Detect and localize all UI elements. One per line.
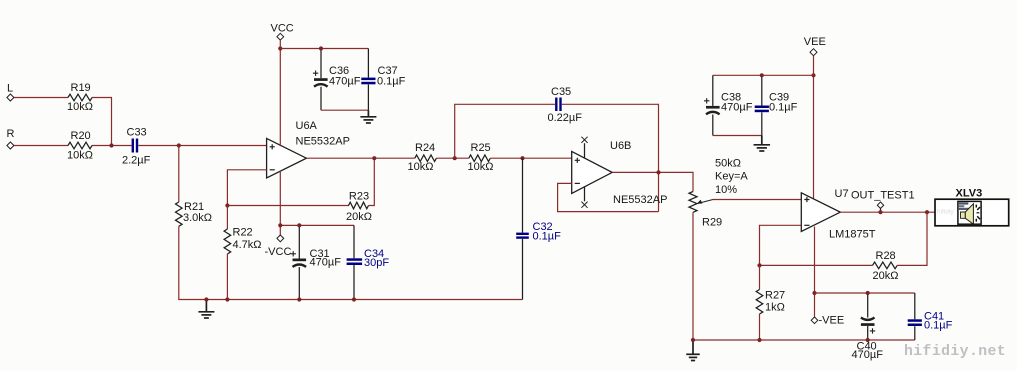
svg-text:10%: 10% bbox=[715, 184, 737, 196]
svg-text:NE5532AP: NE5532AP bbox=[296, 136, 350, 148]
svg-text:R27: R27 bbox=[765, 290, 785, 302]
wire bbox=[14, 97, 68, 99]
wire bbox=[813, 56, 815, 200]
wire bbox=[914, 326, 916, 340]
svg-text:U7: U7 bbox=[835, 188, 849, 200]
node junction bbox=[757, 263, 761, 267]
svg-text:0.1µF: 0.1µF bbox=[533, 231, 562, 243]
node junction bbox=[297, 223, 301, 227]
ground bbox=[686, 340, 700, 361]
svg-text:R28: R28 bbox=[876, 250, 896, 262]
svg-text:470µF: 470µF bbox=[310, 257, 342, 269]
svg-text:R25: R25 bbox=[471, 142, 491, 154]
resistor R21 bbox=[176, 201, 213, 226]
wire bbox=[712, 115, 714, 136]
svg-text:2.2µF: 2.2µF bbox=[122, 155, 151, 167]
svg-text:LM1875T: LM1875T bbox=[829, 229, 876, 241]
wire bbox=[490, 157, 571, 159]
wire bbox=[14, 145, 68, 147]
wire bbox=[455, 104, 555, 158]
wire bbox=[612, 172, 693, 191]
node junction bbox=[925, 210, 929, 214]
svg-text:1kΩ: 1kΩ bbox=[765, 302, 785, 314]
node junction bbox=[225, 203, 229, 207]
wire bbox=[558, 183, 659, 211]
svg-text:10kΩ: 10kΩ bbox=[408, 161, 434, 173]
wire bbox=[369, 158, 375, 205]
svg-text:hifidiy.net: hifidiy.net bbox=[904, 344, 1006, 360]
svg-text:470µF: 470µF bbox=[329, 76, 361, 88]
wire bbox=[761, 75, 763, 105]
svg-text:470µF: 470µF bbox=[721, 102, 753, 114]
wire bbox=[138, 145, 266, 147]
svg-text:C35: C35 bbox=[551, 86, 571, 98]
wire bbox=[280, 48, 368, 50]
wire bbox=[178, 146, 180, 203]
node junction bbox=[757, 338, 761, 342]
wire bbox=[761, 112, 763, 135]
potentiometer R29 bbox=[689, 157, 748, 228]
svg-text:10kΩ: 10kΩ bbox=[468, 161, 494, 173]
wire bbox=[367, 49, 369, 78]
svg-text:VEE: VEE bbox=[804, 36, 826, 48]
wire bbox=[179, 226, 523, 299]
wire bbox=[298, 225, 300, 258]
node junction bbox=[760, 73, 764, 77]
svg-text:50kΩ: 50kΩ bbox=[715, 157, 741, 169]
pin V+ (NC) bbox=[581, 137, 587, 158]
svg-text:R29: R29 bbox=[702, 217, 722, 229]
wire bbox=[353, 265, 355, 300]
wire bbox=[840, 211, 935, 213]
wire bbox=[321, 109, 368, 111]
resistor R27 bbox=[756, 290, 785, 315]
svg-text:R: R bbox=[7, 128, 15, 140]
svg-text:30pF: 30pF bbox=[364, 257, 389, 269]
wire bbox=[759, 314, 761, 340]
svg-text:470µF: 470µF bbox=[852, 349, 884, 361]
resistor R28 bbox=[873, 250, 899, 282]
wire bbox=[760, 225, 873, 265]
connector R bbox=[7, 128, 15, 149]
capacitor C38 bbox=[704, 92, 753, 115]
capacitor C40 bbox=[852, 318, 884, 362]
wire bbox=[298, 267, 300, 299]
node junction bbox=[866, 291, 870, 295]
wire bbox=[815, 292, 915, 294]
wire bbox=[693, 212, 915, 340]
resistor R22 bbox=[226, 206, 228, 230]
wire bbox=[279, 40, 281, 146]
wire bbox=[897, 212, 927, 265]
svg-text:U6A: U6A bbox=[296, 120, 318, 132]
connector L bbox=[7, 83, 14, 102]
wire bbox=[759, 265, 761, 289]
svg-text:0.1µF: 0.1µF bbox=[924, 320, 953, 332]
svg-text:0.1µF: 0.1µF bbox=[769, 102, 798, 114]
wire bbox=[320, 87, 322, 110]
wire bbox=[280, 224, 354, 226]
wire bbox=[92, 98, 112, 146]
capacitor C34 bbox=[347, 248, 390, 269]
svg-text:R22: R22 bbox=[233, 227, 253, 239]
node junction bbox=[372, 156, 376, 160]
node junction bbox=[297, 297, 301, 301]
svg-text:NE5532AP: NE5532AP bbox=[613, 194, 667, 206]
wire bbox=[867, 326, 869, 340]
speaker XLV3 bbox=[935, 187, 1009, 225]
node junction bbox=[866, 338, 870, 342]
node junction bbox=[453, 156, 457, 160]
op-amp U6B bbox=[572, 140, 668, 206]
node junction bbox=[278, 46, 282, 50]
node junction bbox=[352, 297, 356, 301]
node junction bbox=[812, 291, 816, 295]
wire bbox=[713, 74, 814, 76]
pin V- (NC) bbox=[581, 186, 587, 207]
wire bbox=[814, 227, 816, 318]
capacitor C41 bbox=[908, 311, 953, 332]
svg-text:C33: C33 bbox=[127, 126, 147, 138]
wire bbox=[712, 75, 714, 106]
power -VEE bbox=[811, 314, 844, 326]
svg-text:U6B: U6B bbox=[610, 140, 631, 152]
capacitor C31 bbox=[291, 248, 342, 269]
wire bbox=[353, 225, 355, 258]
power VCC bbox=[271, 22, 294, 40]
svg-text:Key=A: Key=A bbox=[715, 171, 748, 183]
svg-text:4.7kΩ: 4.7kΩ bbox=[233, 239, 262, 251]
node junction bbox=[278, 223, 282, 227]
resistor R24 bbox=[408, 142, 437, 173]
svg-text:R24: R24 bbox=[415, 142, 435, 154]
node junction bbox=[109, 143, 113, 147]
resistor R20 bbox=[67, 130, 93, 162]
node junction bbox=[691, 338, 695, 342]
svg-text:3.0kΩ: 3.0kΩ bbox=[183, 212, 212, 224]
op-amp U6A bbox=[267, 120, 350, 178]
wire bbox=[436, 157, 468, 159]
svg-text:OUT_TEST1: OUT_TEST1 bbox=[851, 190, 915, 202]
svg-text:R19: R19 bbox=[71, 82, 91, 94]
svg-text:hifidiy: hifidiy bbox=[937, 209, 954, 216]
svg-text:20kΩ: 20kΩ bbox=[873, 270, 899, 282]
node OUT_TEST1 bbox=[851, 190, 915, 215]
node junction bbox=[177, 143, 181, 147]
node junction bbox=[204, 297, 208, 301]
node junction bbox=[811, 73, 815, 77]
wire bbox=[367, 85, 369, 111]
svg-text:-VCC: -VCC bbox=[265, 246, 292, 258]
svg-text:10kΩ: 10kΩ bbox=[67, 101, 93, 113]
wire bbox=[713, 199, 801, 201]
power -VCC bbox=[265, 235, 292, 258]
wire bbox=[562, 104, 659, 211]
resistor R25 bbox=[468, 142, 494, 173]
wire bbox=[867, 293, 869, 318]
op-amp U7 bbox=[801, 188, 875, 241]
node junction bbox=[520, 156, 524, 160]
wire bbox=[227, 170, 349, 206]
svg-text:R23: R23 bbox=[349, 191, 369, 203]
svg-text:XLV3: XLV3 bbox=[956, 187, 983, 199]
svg-text:L: L bbox=[7, 83, 13, 95]
wire bbox=[279, 171, 281, 235]
svg-text:10kΩ: 10kΩ bbox=[67, 150, 93, 162]
svg-text:-VEE: -VEE bbox=[819, 314, 845, 326]
svg-text:0.22µF: 0.22µF bbox=[548, 112, 583, 124]
power VEE bbox=[804, 36, 826, 56]
capacitor C36 bbox=[313, 65, 361, 88]
wire bbox=[522, 239, 524, 300]
capacitor C32 bbox=[516, 221, 561, 243]
resistor R23 bbox=[346, 191, 372, 223]
node junction bbox=[656, 170, 660, 174]
node junction bbox=[225, 297, 229, 301]
resistor R19 bbox=[67, 82, 93, 113]
ground bbox=[754, 136, 771, 152]
svg-text:0.1µF: 0.1µF bbox=[377, 76, 406, 88]
capacitor C39 bbox=[755, 92, 798, 114]
wire bbox=[320, 49, 322, 79]
node junction bbox=[319, 46, 323, 50]
svg-text:R20: R20 bbox=[71, 130, 91, 142]
wire bbox=[226, 254, 228, 300]
wire bbox=[713, 135, 762, 137]
wire bbox=[92, 145, 132, 147]
wire bbox=[914, 293, 916, 319]
wire bbox=[306, 157, 414, 159]
svg-text:20kΩ: 20kΩ bbox=[346, 211, 372, 223]
capacitor C37 bbox=[361, 65, 405, 88]
capacitor C33 bbox=[122, 126, 151, 166]
svg-text:VCC: VCC bbox=[271, 22, 294, 34]
capacitor C35 bbox=[548, 86, 583, 124]
ground bbox=[360, 110, 376, 123]
wire bbox=[522, 158, 524, 232]
ground bbox=[198, 300, 214, 319]
